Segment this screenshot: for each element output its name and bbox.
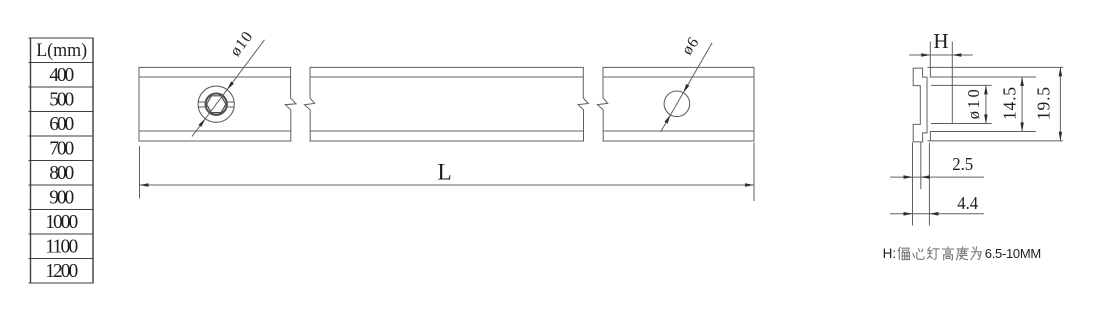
section: rail inner top line — [930, 76, 1035, 78]
O10 leader arrow bottom — [199, 119, 206, 127]
L dimension extension line left — [139, 147, 141, 199]
svg-text:500: 500 — [49, 90, 74, 111]
hole O10 outer circle — [198, 86, 234, 122]
svg-text:L: L — [437, 160, 451, 186]
section: slot bottom wall + H extension right — [951, 42, 953, 124]
svg-text:700: 700 — [49, 139, 74, 160]
svg-text:ø6: ø6 — [679, 34, 703, 58]
H dimension arrows — [921, 53, 961, 57]
4.4 extension line c (x=929.4) — [928, 143, 930, 225]
section: H extension left — [929, 42, 931, 67]
section: rail outer top line — [928, 66, 1063, 68]
svg-text:H: H — [933, 29, 948, 53]
section: rail mouth wall bottom — [929, 132, 931, 141]
O6 leader arrow top — [683, 84, 689, 93]
H dimension line — [910, 54, 973, 56]
14.5 dimension line — [1021, 77, 1023, 132]
rail segment 1 right break line — [285, 67, 296, 141]
4.4 dimension arrows — [904, 212, 939, 216]
14.5 dimension arrows — [1020, 77, 1024, 132]
glyph 心 — [913, 249, 924, 260]
rail segment 2 left break line — [304, 67, 314, 141]
section: rail inner bottom line — [930, 131, 1035, 133]
section: cavity top line — [932, 84, 992, 86]
L dimension line — [140, 184, 755, 186]
rail segment 1 left edge — [138, 67, 140, 141]
rail segment 3 left break line — [597, 67, 607, 141]
rail segment 2 (middle) horizontals — [310, 67, 583, 141]
O10 vertical dimension line — [985, 85, 987, 123]
rail segment 1 (left) horizontals — [139, 67, 291, 141]
svg-text:1000: 1000 — [45, 212, 78, 233]
svg-text:4.4: 4.4 — [957, 193, 978, 213]
19.5 dimension arrows — [1059, 67, 1063, 140]
hole O10 hexagon socket — [207, 96, 226, 113]
rail segment 2 right break line — [578, 67, 588, 141]
O10 vertical dimension arrows — [984, 85, 988, 123]
svg-text:1100: 1100 — [45, 237, 78, 258]
table L(mm) grid — [29, 38, 94, 283]
glyph 为 — [971, 247, 981, 259]
section: rail mouth wall top — [929, 67, 931, 77]
section: cavity bottom line — [932, 123, 992, 125]
2.5 extension line b (x=920.8) — [920, 143, 922, 189]
L dimension arrow right — [745, 183, 754, 187]
2.5 dimension arrows — [904, 175, 930, 179]
2.5/4.4 extension line a (x=912.5) — [912, 143, 914, 225]
section: rail outer bottom line — [928, 140, 1063, 142]
svg-text:H:: H: — [883, 246, 897, 261]
4.4 dimension line — [891, 213, 984, 215]
glyph 偏 — [898, 247, 909, 259]
O10 leader arrow top — [227, 81, 234, 89]
hole O10 slot lines — [198, 102, 234, 107]
hole O6 circle — [664, 91, 690, 117]
svg-text:ø10: ø10 — [964, 89, 983, 119]
svg-text:19.5: 19.5 — [1034, 87, 1054, 120]
svg-text:L(mm): L(mm) — [36, 40, 87, 61]
note: H:偏心钉高度为6.5-10MM (CJK hand-drawn) — [883, 246, 1041, 261]
svg-text:800: 800 — [49, 163, 74, 184]
O6 leader arrow bottom — [664, 115, 670, 124]
glyph 钉 — [927, 247, 939, 259]
glyph 高 — [943, 247, 954, 260]
svg-text:2.5: 2.5 — [952, 154, 973, 174]
svg-text:ø10: ø10 — [227, 28, 257, 60]
svg-text:14.5: 14.5 — [1000, 87, 1020, 120]
rail segment 3 right edge — [753, 67, 755, 141]
O10 leader line — [192, 40, 264, 136]
table values — [45, 65, 78, 282]
L dimension extension line right — [753, 143, 755, 201]
rail segment 3 (right) horizontals — [603, 67, 754, 141]
svg-text:6.5-10MM: 6.5-10MM — [985, 246, 1041, 261]
hole O10 inner circle (bold) — [206, 94, 227, 115]
L dimension arrow left — [140, 183, 149, 187]
section: eccentric pin outline — [913, 68, 927, 142]
glyph 度 — [957, 247, 969, 260]
svg-text:400: 400 — [49, 65, 74, 86]
svg-text:600: 600 — [49, 114, 74, 135]
svg-text:1200: 1200 — [45, 261, 78, 282]
O6 leader line — [661, 43, 712, 131]
19.5 dimension line — [1059, 67, 1061, 140]
2.5 dimension line — [891, 176, 984, 178]
svg-text:900: 900 — [49, 188, 74, 209]
